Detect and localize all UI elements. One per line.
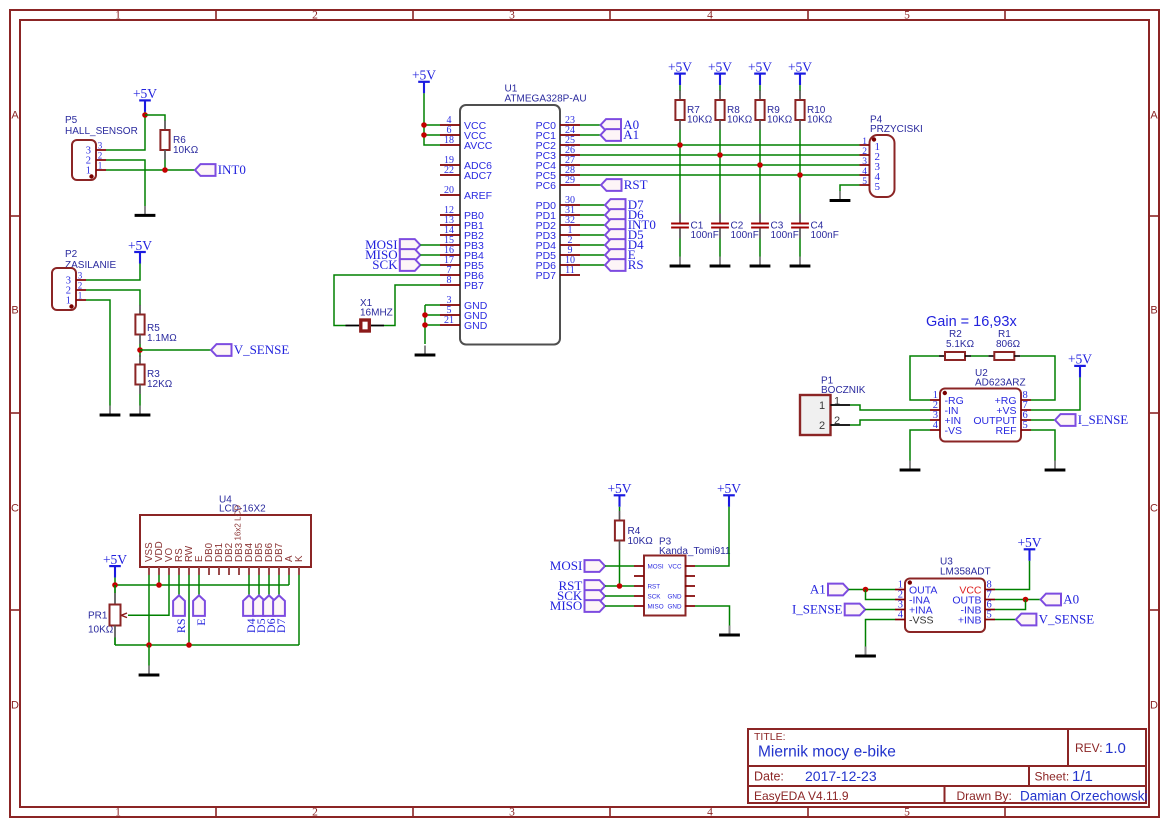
svg-text:Drawn By:: Drawn By: bbox=[957, 789, 1012, 803]
ground (C3) bbox=[750, 257, 771, 267]
svg-text:1: 1 bbox=[115, 807, 121, 819]
svg-text:GND: GND bbox=[668, 603, 682, 610]
wire P5 pin2 to ground bbox=[106, 160, 145, 208]
svg-text:+5V: +5V bbox=[1017, 535, 1041, 550]
svg-text:PR1: PR1 bbox=[88, 611, 108, 622]
net flag SCK (U1 PB5) bbox=[372, 257, 440, 272]
wire C1 to ground bbox=[679, 239, 681, 259]
svg-text:4: 4 bbox=[707, 807, 713, 819]
svg-text:GND: GND bbox=[668, 593, 682, 600]
svg-text:AD623ARZ: AD623ARZ bbox=[975, 378, 1026, 389]
wire U2 OUTPUT to I_SENSE bbox=[1031, 419, 1055, 421]
potentiometer PR1 10K bbox=[88, 585, 127, 645]
net flag RST (U1 PC6) bbox=[580, 177, 648, 192]
op-amp U3 LM358ADT bbox=[895, 557, 995, 633]
net flag D4 (LCD) bbox=[243, 575, 258, 633]
wire U1 PB6 to crystal bbox=[334, 275, 440, 326]
svg-text:LM358ADT: LM358ADT bbox=[940, 566, 991, 577]
wire R5 to V_SENSE node bbox=[139, 344, 141, 357]
wire P2 pin3 to +5V bbox=[86, 264, 140, 281]
junction U1 VCC pin6 bbox=[421, 132, 427, 138]
svg-text:V_SENSE: V_SENSE bbox=[1039, 612, 1095, 627]
svg-text:1: 1 bbox=[862, 137, 867, 147]
svg-text:ADC7: ADC7 bbox=[464, 170, 492, 182]
connector P5 HALL_SENSOR bbox=[65, 115, 138, 180]
+5V flag (U2) bbox=[1068, 352, 1092, 378]
resistor R5 bbox=[135, 305, 177, 344]
resistor R9 bbox=[755, 91, 792, 130]
svg-text:Gain = 16,93x: Gain = 16,93x bbox=[926, 314, 1017, 330]
+5V flag (R8) bbox=[708, 59, 732, 85]
resistor R4 bbox=[615, 511, 653, 550]
svg-text:5: 5 bbox=[862, 177, 867, 187]
wire P2 pin1 to ground bbox=[86, 300, 110, 408]
ground (P5 pin2) bbox=[135, 206, 156, 216]
crystal X1 16MHZ bbox=[346, 298, 393, 331]
+5V flag (P3 VCC) bbox=[717, 481, 741, 507]
wire C3 to ground bbox=[759, 239, 761, 259]
junction R9 net bbox=[757, 162, 763, 168]
svg-text:RS: RS bbox=[628, 257, 644, 272]
wire OUTB to -INB bbox=[995, 600, 1026, 610]
svg-text:V_SENSE: V_SENSE bbox=[234, 342, 290, 357]
ground (U3) bbox=[855, 647, 876, 657]
net flag MISO (U1 PB4) bbox=[365, 247, 440, 262]
net flag INT0 (U1) bbox=[580, 217, 656, 232]
svg-text:A1: A1 bbox=[623, 127, 639, 142]
svg-text:D: D bbox=[11, 700, 19, 712]
resistor R10 bbox=[795, 91, 832, 130]
svg-text:3: 3 bbox=[509, 807, 515, 819]
svg-text:22: 22 bbox=[444, 165, 454, 176]
svg-text:11: 11 bbox=[565, 265, 575, 276]
wire R6 to INT0 net bbox=[164, 160, 166, 171]
ground (U1) bbox=[415, 346, 436, 356]
svg-text:REF: REF bbox=[996, 425, 1017, 437]
wire +5V to R8 bbox=[719, 85, 721, 91]
wire P1 pin1 to U2 -IN bbox=[850, 405, 930, 410]
junction U1 VCC pin4 bbox=[421, 122, 427, 128]
svg-text:+5V: +5V bbox=[1068, 352, 1092, 367]
svg-text:4: 4 bbox=[707, 10, 713, 22]
svg-text:1: 1 bbox=[98, 161, 103, 171]
wire P3 VCC to +5V bbox=[695, 507, 729, 566]
IC U4 LCD-16X2 bbox=[140, 495, 311, 576]
svg-text:+5V: +5V bbox=[607, 481, 631, 496]
wire feedback right (to U2 +RG) bbox=[1020, 356, 1055, 400]
resistor R3 bbox=[135, 355, 172, 394]
ground (P2 pin1) bbox=[100, 406, 121, 416]
wire button net y=155 bbox=[580, 154, 860, 156]
svg-text:100nF: 100nF bbox=[771, 230, 799, 241]
svg-text:Miernik mocy e-bike: Miernik mocy e-bike bbox=[758, 744, 896, 761]
+5V flag (R9) bbox=[748, 59, 772, 85]
net flag D4 (U1) bbox=[580, 237, 644, 252]
junction R10 net bbox=[797, 172, 803, 178]
ground (C2) bbox=[710, 257, 731, 267]
wire +5V to P5 pin3 bbox=[106, 112, 145, 150]
svg-text:B: B bbox=[1150, 305, 1157, 317]
svg-text:I_SENSE: I_SENSE bbox=[792, 602, 843, 617]
svg-text:A1: A1 bbox=[810, 582, 826, 597]
junction U1 GND pin5 bbox=[422, 312, 428, 318]
svg-text:K: K bbox=[294, 555, 305, 562]
net flag A0 (U1 PC0) bbox=[580, 117, 639, 132]
net flag MOSI (U1 PB3) bbox=[365, 237, 440, 252]
net flag I_SENSE (U3) bbox=[792, 602, 895, 617]
wire LCD +5V rail bbox=[115, 575, 289, 585]
svg-text:806Ω: 806Ω bbox=[996, 339, 1021, 350]
svg-text:1.0: 1.0 bbox=[1105, 740, 1126, 757]
svg-text:10KΩ: 10KΩ bbox=[628, 536, 654, 547]
title block bbox=[748, 729, 1148, 804]
net flag D6 (LCD) bbox=[263, 575, 278, 633]
text Gain = 16,93x bbox=[926, 314, 1017, 330]
svg-text:10KΩ: 10KΩ bbox=[727, 115, 753, 126]
wire R4 to RST net bbox=[619, 550, 621, 586]
wire P5 pin1 to INT0 bbox=[106, 169, 195, 171]
wire button net y=145 bbox=[580, 144, 860, 146]
ground (U2 -VS) bbox=[900, 461, 921, 471]
ground (LCD) bbox=[139, 666, 160, 676]
svg-text:MISO: MISO bbox=[550, 598, 583, 613]
svg-text:29: 29 bbox=[565, 175, 575, 186]
junction R6/INT0 bbox=[162, 167, 168, 173]
net flag SCK (P3) bbox=[557, 588, 634, 603]
wire LCD ground rail bbox=[115, 644, 299, 646]
+5V flag (U1) bbox=[412, 68, 436, 94]
svg-text:+5V: +5V bbox=[748, 59, 772, 74]
svg-text:3: 3 bbox=[98, 141, 103, 151]
svg-text:2: 2 bbox=[98, 151, 103, 161]
wire R7 to net/cap bbox=[679, 130, 681, 214]
svg-text:5: 5 bbox=[875, 181, 881, 193]
svg-text:A: A bbox=[1150, 110, 1158, 122]
svg-text:3: 3 bbox=[862, 157, 867, 167]
wire C2 to ground bbox=[719, 239, 721, 259]
+5V flag (R7) bbox=[668, 59, 692, 85]
svg-text:RS: RS bbox=[174, 618, 188, 633]
net flag I_SENSE (U2) bbox=[1055, 412, 1128, 427]
svg-text:4: 4 bbox=[898, 610, 904, 621]
wire rail to ground bbox=[148, 645, 150, 668]
junction R7 net bbox=[677, 142, 683, 148]
svg-text:+5V: +5V bbox=[128, 238, 152, 253]
net flag D5 (LCD) bbox=[253, 575, 268, 633]
svg-text:2017-12-23: 2017-12-23 bbox=[805, 768, 877, 784]
capacitor C1 100nF bbox=[671, 214, 719, 242]
net flag A1 (U3) bbox=[810, 582, 895, 597]
wire +5V to U2 +VS bbox=[1031, 377, 1080, 410]
svg-text:2: 2 bbox=[819, 420, 825, 432]
wire V_SENSE to U3 +INB bbox=[995, 619, 1016, 621]
svg-text:16x2 LCD: 16x2 LCD bbox=[234, 505, 243, 541]
wire U1 GND pins bbox=[425, 305, 440, 344]
net flag D7 (LCD) bbox=[273, 575, 288, 633]
net flag RS (LCD) bbox=[173, 575, 188, 633]
svg-text:18: 18 bbox=[444, 135, 454, 146]
net flag D7 (U1) bbox=[580, 197, 644, 212]
svg-text:AVCC: AVCC bbox=[464, 140, 493, 152]
junction RST/R4 bbox=[617, 583, 623, 589]
net flag E (LCD) bbox=[193, 575, 208, 626]
wire R2-R1 link bbox=[971, 355, 988, 357]
svg-text:5: 5 bbox=[904, 10, 910, 22]
svg-text:+5V: +5V bbox=[412, 68, 436, 83]
+5V flag (R10) bbox=[788, 59, 812, 85]
svg-text:5.1KΩ: 5.1KΩ bbox=[946, 339, 975, 350]
svg-text:+5V: +5V bbox=[668, 59, 692, 74]
svg-text:E: E bbox=[194, 618, 208, 625]
svg-text:Damian Orzechowski: Damian Orzechowski bbox=[1020, 789, 1148, 804]
svg-text:Date:: Date: bbox=[754, 770, 784, 784]
net flag V_SENSE (U3) bbox=[1016, 612, 1094, 627]
connector P2 ZASILANIE bbox=[52, 249, 116, 310]
svg-text:-VSS: -VSS bbox=[909, 614, 934, 626]
+5V flag (R4) bbox=[607, 481, 631, 507]
wire R8 to net/cap bbox=[719, 130, 721, 214]
wire LCD VO to PR1 wiper bbox=[128, 575, 169, 615]
+5V flag (P2) bbox=[128, 238, 152, 264]
capacitor C3 100nF bbox=[751, 214, 799, 242]
svg-text:2: 2 bbox=[312, 10, 318, 22]
net flag INT0 bbox=[195, 162, 246, 177]
wire +5V junction to R6 bbox=[145, 115, 165, 121]
connector P3 Kanda_Tomi911 bbox=[634, 537, 731, 616]
connector P4 PRZYCISKI bbox=[860, 114, 923, 197]
svg-text:10KΩ: 10KΩ bbox=[767, 115, 793, 126]
svg-text:2: 2 bbox=[834, 415, 840, 427]
svg-text:C: C bbox=[11, 503, 19, 515]
connector P1 BOCZNIK bbox=[800, 376, 866, 436]
wire P4 pin5 to ground bbox=[840, 185, 860, 193]
svg-text:A: A bbox=[11, 110, 19, 122]
+5V flag (U3) bbox=[1017, 535, 1041, 561]
svg-text:PB7: PB7 bbox=[464, 280, 484, 292]
svg-text:+5V: +5V bbox=[133, 86, 157, 101]
svg-text:TITLE:: TITLE: bbox=[754, 731, 786, 743]
svg-text:D7: D7 bbox=[274, 618, 288, 633]
resistor R7 bbox=[675, 91, 712, 130]
junction OUTB/-INB bbox=[1023, 597, 1029, 603]
wire LCD VSS down bbox=[148, 575, 150, 645]
svg-text:1.1MΩ: 1.1MΩ bbox=[147, 333, 177, 344]
svg-text:5: 5 bbox=[987, 610, 992, 621]
net flag RS (U1) bbox=[580, 257, 644, 272]
svg-text:Sheet:: Sheet: bbox=[1035, 770, 1070, 784]
svg-text:10KΩ: 10KΩ bbox=[173, 145, 199, 156]
svg-text:4: 4 bbox=[862, 167, 867, 177]
svg-text:GND: GND bbox=[464, 320, 488, 332]
wire U2 REF to ground bbox=[1031, 430, 1055, 463]
svg-text:+5V: +5V bbox=[708, 59, 732, 74]
svg-text:REV:: REV: bbox=[1075, 741, 1103, 755]
ground (C1) bbox=[670, 257, 691, 267]
capacitor C4 100nF bbox=[791, 214, 839, 242]
svg-text:PRZYCISKI: PRZYCISKI bbox=[870, 124, 923, 135]
svg-text:PC6: PC6 bbox=[536, 180, 557, 192]
svg-text:+5V: +5V bbox=[103, 552, 127, 567]
junction R8 net bbox=[717, 152, 723, 158]
svg-text:1: 1 bbox=[78, 291, 83, 301]
junction rail2/VSS bbox=[146, 642, 152, 648]
svg-text:1: 1 bbox=[834, 395, 840, 407]
IC U1 ATMEGA328P-AU bbox=[440, 84, 587, 345]
svg-text:+5V: +5V bbox=[717, 481, 741, 496]
net flag E (U1) bbox=[580, 247, 636, 262]
svg-text:AREF: AREF bbox=[464, 190, 492, 202]
svg-text:100nF: 100nF bbox=[731, 230, 759, 241]
wire LCD RW down bbox=[188, 575, 190, 645]
svg-text:PD7: PD7 bbox=[536, 270, 557, 282]
svg-text:4: 4 bbox=[933, 420, 939, 431]
wire V_SENSE node to flag bbox=[140, 349, 211, 351]
wire +5V to R9 bbox=[759, 85, 761, 91]
ground (P3) bbox=[719, 626, 740, 636]
svg-text:3: 3 bbox=[78, 271, 83, 281]
wire P3 GND to ground bbox=[695, 606, 730, 628]
svg-text:MOSI: MOSI bbox=[648, 563, 664, 570]
svg-text:1: 1 bbox=[115, 10, 121, 22]
svg-text:ATMEGA328P-AU: ATMEGA328P-AU bbox=[505, 93, 587, 104]
svg-text:LCD-16X2: LCD-16X2 bbox=[219, 504, 266, 515]
net flag D6 (U1) bbox=[580, 207, 644, 222]
svg-text:SCK: SCK bbox=[648, 593, 662, 600]
wire P1 pin2 to U2 +IN bbox=[850, 420, 930, 425]
ground (C4) bbox=[790, 257, 811, 267]
svg-text:VCC: VCC bbox=[668, 563, 682, 570]
svg-text:MOSI: MOSI bbox=[550, 558, 583, 573]
net flag MOSI (P3) bbox=[550, 558, 634, 573]
wire C4 to ground bbox=[799, 239, 801, 259]
wire U3 -VSS to ground bbox=[866, 620, 896, 649]
net flag V_SENSE bbox=[211, 342, 289, 357]
svg-text:D: D bbox=[1150, 700, 1158, 712]
net flag MISO (P3) bbox=[550, 598, 634, 613]
junction V_SENSE bbox=[137, 347, 143, 353]
svg-text:-VS: -VS bbox=[945, 425, 963, 437]
svg-text:A0: A0 bbox=[1063, 592, 1079, 607]
svg-text:EasyEDA V4.11.9: EasyEDA V4.11.9 bbox=[754, 789, 849, 803]
wire A1 to -INA bbox=[866, 590, 896, 600]
wire +5V to U3 VCC bbox=[995, 561, 1030, 590]
svg-text:I_SENSE: I_SENSE bbox=[1078, 412, 1129, 427]
svg-text:16MHZ: 16MHZ bbox=[360, 308, 393, 319]
wire +5V to R7 bbox=[679, 85, 681, 91]
wire +5V to R4 bbox=[619, 507, 621, 511]
svg-text:21: 21 bbox=[444, 315, 454, 326]
svg-text:SCK: SCK bbox=[372, 257, 398, 272]
svg-text:RST: RST bbox=[648, 583, 661, 590]
capacitor C2 100nF bbox=[711, 214, 759, 242]
resistor R8 bbox=[715, 91, 752, 130]
net flag D5 (U1) bbox=[580, 227, 644, 242]
wire feedback left (to U2 -RG) bbox=[910, 356, 939, 400]
svg-text:3: 3 bbox=[509, 10, 515, 22]
junction U1 GND pin21 bbox=[422, 322, 428, 328]
svg-text:RST: RST bbox=[624, 177, 648, 192]
junction rail2/RW bbox=[186, 642, 192, 648]
net flag RST (P3) bbox=[558, 578, 634, 593]
resistor R2 bbox=[939, 329, 975, 360]
svg-text:5: 5 bbox=[904, 807, 910, 819]
op-amp U2 AD623ARZ bbox=[930, 368, 1031, 442]
svg-text:5: 5 bbox=[1023, 420, 1028, 431]
svg-text:100nF: 100nF bbox=[811, 230, 839, 241]
+5V flag (P5/R6) bbox=[133, 86, 157, 112]
wire U1 PB7 to crystal bbox=[384, 285, 440, 326]
ground (U2 REF) bbox=[1045, 461, 1066, 471]
+5V flag (LCD) bbox=[103, 552, 127, 578]
wire R10 to net/cap bbox=[799, 130, 801, 214]
wire +5V to U1 VCC/AVCC bbox=[424, 93, 440, 145]
wire P2 pin2 to R5 bbox=[86, 290, 140, 306]
wire R3 to ground bbox=[139, 394, 141, 408]
resistor R1 bbox=[988, 329, 1020, 360]
svg-text:B: B bbox=[11, 305, 18, 317]
svg-text:C: C bbox=[1150, 503, 1158, 515]
junction A1/-INA bbox=[863, 587, 869, 593]
wire R9 to net/cap bbox=[759, 130, 761, 214]
svg-text:MISO: MISO bbox=[648, 603, 664, 610]
wire U3 OUTB to A0 bbox=[995, 599, 1041, 601]
svg-text:+INB: +INB bbox=[958, 614, 982, 626]
svg-text:2: 2 bbox=[78, 281, 83, 291]
svg-text:HALL_SENSOR: HALL_SENSOR bbox=[65, 126, 138, 137]
svg-text:P2: P2 bbox=[65, 249, 78, 260]
ground (R3) bbox=[130, 406, 151, 416]
wire LCD K down bbox=[298, 575, 300, 645]
junction rail/VDD bbox=[156, 582, 162, 588]
svg-text:P5: P5 bbox=[65, 115, 78, 126]
svg-text:12KΩ: 12KΩ bbox=[147, 379, 173, 390]
svg-text:1/1: 1/1 bbox=[1072, 768, 1093, 785]
svg-text:10KΩ: 10KΩ bbox=[807, 115, 833, 126]
svg-text:INT0: INT0 bbox=[218, 162, 246, 177]
wire +5V to R10 bbox=[799, 85, 801, 91]
svg-text:2: 2 bbox=[312, 807, 318, 819]
svg-text:10KΩ: 10KΩ bbox=[687, 115, 713, 126]
wire U2 -VS to ground bbox=[910, 430, 930, 463]
svg-text:20: 20 bbox=[444, 185, 454, 196]
net flag A1 (U1 PC1) bbox=[580, 127, 639, 142]
wire +5V to LCD rail bbox=[114, 578, 116, 585]
svg-text:2: 2 bbox=[862, 147, 867, 157]
svg-text:8: 8 bbox=[447, 275, 452, 286]
resistor R6 bbox=[160, 121, 198, 160]
svg-text:+5V: +5V bbox=[788, 59, 812, 74]
svg-text:100nF: 100nF bbox=[691, 230, 719, 241]
junction +5V/R6 bbox=[142, 112, 148, 118]
svg-text:1: 1 bbox=[819, 400, 825, 412]
wire button net y=165 bbox=[580, 164, 860, 166]
junction rail/PR1 bbox=[112, 582, 118, 588]
net flag A0 (U3) bbox=[1041, 592, 1080, 607]
wire button net y=175 bbox=[580, 174, 860, 176]
ground (P4) bbox=[830, 191, 851, 201]
